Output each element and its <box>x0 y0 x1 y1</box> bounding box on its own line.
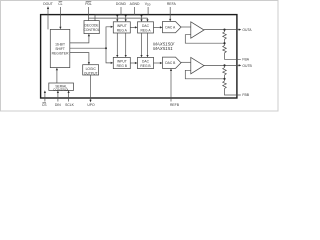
svg-text:DAC A: DAC A <box>165 26 176 30</box>
svg-text:CONTROL: CONTROL <box>84 28 100 32</box>
svg-text:AGND: AGND <box>130 2 140 6</box>
svg-text:FBB: FBB <box>242 93 249 97</box>
svg-text:REG B: REG B <box>117 64 128 68</box>
svg-text:SHIFT: SHIFT <box>55 47 65 51</box>
svg-text:VDD: VDD <box>145 2 151 7</box>
svg-text:REG A: REG A <box>117 28 128 32</box>
svg-text:CL: CL <box>58 2 62 6</box>
svg-text:DGND: DGND <box>116 2 127 6</box>
svg-text:DOUT: DOUT <box>43 2 53 6</box>
svg-text:CS: CS <box>42 103 47 107</box>
svg-text:SCLK: SCLK <box>65 103 75 107</box>
svg-text:REG B: REG B <box>140 64 151 68</box>
svg-text:DIN: DIN <box>55 103 61 107</box>
svg-text:DAC: DAC <box>142 24 150 28</box>
svg-text:OUTA: OUTA <box>242 28 252 32</box>
svg-text:PDL: PDL <box>85 2 92 6</box>
svg-text:REG A: REG A <box>140 28 151 32</box>
svg-text:OUTB: OUTB <box>242 64 252 68</box>
svg-text:INPUT: INPUT <box>117 60 127 64</box>
svg-text:DAC: DAC <box>142 60 150 64</box>
svg-text:DAC B: DAC B <box>165 61 176 65</box>
svg-text:DECODE: DECODE <box>85 24 100 28</box>
svg-text:LOGIC: LOGIC <box>86 67 97 71</box>
svg-text:UPO: UPO <box>87 103 95 107</box>
svg-text:MAX5151: MAX5151 <box>153 46 173 51</box>
svg-text:INPUT: INPUT <box>117 24 127 28</box>
svg-text:16-BIT: 16-BIT <box>55 42 65 46</box>
svg-text:OUTPUT: OUTPUT <box>84 71 98 75</box>
svg-text:REFA: REFA <box>167 2 177 6</box>
svg-text:REFB: REFB <box>170 103 180 107</box>
svg-text:CONTROL: CONTROL <box>53 88 69 92</box>
svg-text:REGISTER: REGISTER <box>52 51 69 55</box>
svg-text:FBA: FBA <box>242 57 249 61</box>
